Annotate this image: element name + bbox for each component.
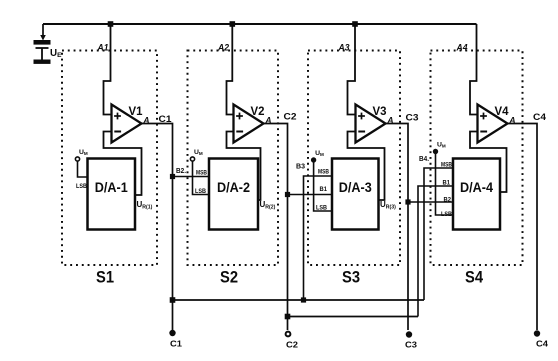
D/A converter block D/A-1 — [88, 159, 136, 230]
junction on wire C2 at bus — [285, 314, 291, 320]
wire B2 from C1 tap to MSB input of D/A-2 — [173, 176, 210, 178]
wire bus carrying C1 signal to stages 3 and 4 — [173, 299, 425, 301]
wire riser from bus C2 to B1 input of D/A-4 — [418, 186, 453, 317]
op-amp V3 — [356, 105, 386, 143]
junction node B2 tap on wire C1 — [170, 174, 175, 179]
wire feedback from V2 minus input to D/A-2 output U_R — [227, 132, 261, 201]
svg-text:S4: S4 — [465, 268, 483, 287]
svg-text:A3: A3 — [338, 43, 350, 53]
op-amp V1 minus input marker — [114, 131, 121, 133]
wire UM to LSB input of D/A-4 — [436, 154, 454, 215]
dashed box stage S3 — [308, 51, 400, 266]
svg-text:S1: S1 — [96, 268, 114, 287]
wire output of V1 to node C1 going down — [142, 124, 173, 331]
svg-text:B2.: B2. — [176, 168, 186, 175]
dashed box stage S2 — [188, 51, 279, 266]
svg-text:C3: C3 — [406, 113, 419, 124]
svg-text:LSB: LSB — [76, 184, 88, 190]
op-amp V3 plus input marker — [358, 113, 365, 120]
svg-text:A1: A1 — [97, 43, 109, 53]
svg-text:D/A-4: D/A-4 — [460, 179, 493, 195]
svg-text:C1: C1 — [170, 339, 182, 349]
wire output of V3 to node C3 going down — [386, 124, 409, 331]
wire input A4 down from top rail with jog to op-amp V4 + input — [470, 24, 478, 115]
wire B3 from C2 tap to B1 input of D/A-3 — [288, 194, 333, 196]
svg-text:A4: A4 — [456, 43, 468, 53]
op-amp V2 — [234, 105, 264, 143]
D/A converter block D/A-2 — [209, 159, 258, 230]
svg-text:D/A-2: D/A-2 — [217, 179, 250, 195]
wire output of V2 to node C2 going down — [264, 124, 288, 331]
wire UM to LSB input of D/A-2 — [193, 162, 210, 195]
terminal UM of stage 4 — [433, 149, 438, 154]
wire riser from bus C1 to MSB input of D/A-4 — [424, 168, 453, 300]
wire input A3 down from top rail with jog to op-amp V3 + input — [348, 24, 356, 115]
terminal C2 — [286, 332, 291, 337]
terminal UM of stage 3 — [311, 157, 316, 162]
svg-text:V4: V4 — [495, 104, 509, 118]
op-amp V4 — [478, 105, 508, 143]
svg-text:UM: UM — [315, 150, 324, 157]
junction on bus C1 at stage 3 riser — [301, 297, 306, 302]
junction node A2 on top rail — [230, 21, 236, 27]
svg-text:V3: V3 — [373, 104, 387, 118]
junction node A1 on top rail — [108, 21, 114, 27]
wire input A1 down from top rail with jog to op-amp V1 + input — [104, 24, 112, 115]
op-amp V2 plus input marker — [236, 113, 243, 120]
op-amp V1 — [112, 105, 142, 143]
terminal C3 — [406, 331, 412, 337]
svg-text:LSB: LSB — [441, 212, 453, 218]
junction node B4 tap on wire C3 — [405, 199, 410, 204]
svg-text:UM: UM — [79, 149, 88, 156]
junction on wire C1 at bus — [170, 297, 176, 303]
svg-text:C4: C4 — [536, 339, 548, 349]
svg-text:B1: B1 — [320, 187, 328, 193]
svg-text:S2: S2 — [220, 268, 238, 287]
wire bus carrying C2 signal to stage 4 — [288, 316, 419, 318]
svg-text:C1: C1 — [159, 114, 173, 125]
op-amp V4 minus input marker — [480, 131, 487, 133]
junction node B3 tap on wire C2 — [285, 192, 290, 197]
wire top supply rail from battery UE to stage inputs — [43, 23, 477, 25]
svg-text:B3: B3 — [296, 164, 305, 171]
svg-text:V2: V2 — [251, 104, 265, 118]
wire feedback from V4 minus input to D/A-4 output U_R — [470, 132, 507, 193]
svg-text:MSB: MSB — [318, 170, 330, 176]
svg-text:D/A-1: D/A-1 — [95, 179, 128, 195]
junction node A3 on top rail — [352, 21, 358, 27]
svg-text:UM: UM — [194, 149, 203, 156]
wire UM to LSB input of D/A-1 — [78, 162, 88, 178]
dashed box stage S1 — [62, 51, 157, 266]
svg-text:LSB: LSB — [316, 206, 328, 212]
svg-text:C2: C2 — [286, 340, 298, 350]
svg-text:B4.: B4. — [419, 156, 429, 163]
svg-text:C4: C4 — [533, 112, 547, 123]
terminal UM of stage 2 — [190, 157, 194, 161]
svg-text:C3: C3 — [405, 340, 417, 350]
terminal C1 — [169, 330, 175, 336]
op-amp V2 minus input marker — [236, 131, 243, 133]
svg-text:D/A-3: D/A-3 — [339, 179, 372, 195]
dashed box stage S4 — [431, 51, 523, 266]
wire B4 from C3 tap to B2 input of D/A-4 — [408, 201, 453, 203]
voltage source UE (battery) — [34, 24, 51, 64]
svg-text:MSB: MSB — [196, 171, 208, 177]
op-amp V1 plus input marker — [114, 113, 121, 120]
op-amp V4 plus input marker — [480, 113, 487, 120]
D/A converter block D/A-4 — [453, 159, 500, 230]
D/A converter block D/A-3 — [332, 159, 379, 230]
wire input A2 down from top rail with jog to op-amp V2 + input — [227, 24, 234, 115]
svg-text:A2: A2 — [217, 43, 229, 53]
terminal C4 — [534, 330, 540, 336]
wire feedback from V1 minus input to D/A-1 output U_R — [104, 132, 142, 196]
svg-text:V1: V1 — [129, 104, 143, 118]
wire feedback from V3 minus input to D/A-3 output U_R — [348, 132, 385, 201]
wire output of V4 to node C4 going down — [508, 124, 538, 331]
svg-text:LSB: LSB — [195, 189, 207, 195]
svg-text:C2: C2 — [284, 112, 297, 123]
op-amp V3 minus input marker — [358, 131, 365, 133]
svg-text:UM: UM — [437, 142, 446, 149]
terminal UM of stage 1 — [75, 157, 79, 161]
wire riser from bus C1 to MSB input of D/A-3 — [304, 176, 333, 300]
svg-text:S3: S3 — [342, 268, 360, 287]
wire UM to LSB input of D/A-3 — [314, 163, 332, 212]
